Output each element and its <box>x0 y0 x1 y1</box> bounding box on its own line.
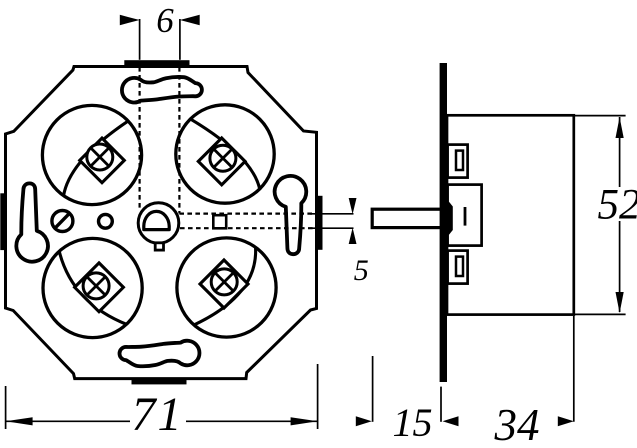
claw unit bottom-left: circle <box>43 238 142 337</box>
claw unit bottom-right: clamp diamond <box>200 260 248 308</box>
claw unit bottom-right: circle <box>177 238 276 337</box>
side view: top terminal lug <box>448 145 468 178</box>
bottom mounting slot (wrench-shaped, rotated copy) <box>120 341 200 367</box>
centre bearing circle <box>138 203 179 244</box>
claw unit top-right: cam arc <box>190 119 260 190</box>
dimension 6: left arrow <box>120 15 140 25</box>
side view: middle lug slot <box>464 207 467 226</box>
dimension 71: left arrow <box>6 417 33 425</box>
claw unit bottom-left: cam arc <box>59 251 127 325</box>
claw unit top-left: screw head (circle with X) <box>87 144 113 170</box>
dimension 5: lower arrow (pointing up) <box>349 228 357 244</box>
dimension 52: bottom extension line <box>575 313 626 315</box>
dimension 5: lower line <box>310 227 354 229</box>
dimension 6: right extension line <box>179 19 181 60</box>
svg-text:5: 5 <box>354 254 369 287</box>
dimension 52: top arrow <box>616 117 624 138</box>
D-shaped shaft seat <box>144 211 169 229</box>
side view: switch body rectangle <box>447 115 574 314</box>
side view: black hub block <box>441 202 453 235</box>
dimension 15: left arrow <box>356 416 372 426</box>
svg-text:34: 34 <box>494 400 540 448</box>
right keyhole slot (rotated copy) <box>275 176 307 254</box>
left edge tick bar <box>0 193 4 250</box>
claw unit top-left: clamp diamond <box>80 138 125 183</box>
dimension 52: top extension line <box>575 115 626 117</box>
svg-text:15: 15 <box>393 400 433 445</box>
front view: octagonal mounting plate outline <box>6 67 317 379</box>
dimension 6: left extension line <box>139 19 141 60</box>
svg-text:52: 52 <box>598 182 637 229</box>
dimension 71: dimension line <box>6 420 318 422</box>
side view: bottom terminal lug <box>448 251 468 284</box>
dimension 15: left extension line (shaft end) <box>372 356 374 422</box>
svg-text:71: 71 <box>132 388 184 441</box>
dimension 52: dimension line <box>619 117 621 312</box>
right edge tick bar <box>318 196 323 250</box>
claw unit bottom-right: cam arc <box>194 247 256 325</box>
slotted screw left of centre <box>52 211 73 232</box>
claw unit top-right: clamp diamond <box>198 138 245 185</box>
claw unit top-right: circle <box>176 105 274 203</box>
dimension 52: bottom arrow <box>616 292 624 313</box>
dimension 71: right extension line <box>317 364 319 429</box>
bottom edge tick bar <box>132 380 187 385</box>
dashed centre line vertical right <box>178 67 180 214</box>
claw unit bottom-left: clamp diamond <box>75 263 124 312</box>
claw unit bottom-left: screw head (circle with X) <box>83 273 109 299</box>
dimension 5: upper arrow (pointing down) <box>349 198 357 214</box>
dimension 34: right extension line (body) <box>573 316 575 422</box>
dimension 71: right arrow <box>291 417 318 425</box>
claw unit top-left: circle <box>42 105 141 204</box>
top edge tick bar <box>124 60 189 65</box>
small square below bearing <box>155 243 163 250</box>
side view: middle terminal lug <box>448 185 482 246</box>
dimension 5: upper line <box>310 213 354 215</box>
dimension 15: right arrow <box>443 416 459 426</box>
square shaft hole (5mm) <box>213 215 226 228</box>
dimension 15: right extension line (plate) <box>440 387 442 422</box>
side view: shaft <box>372 209 444 227</box>
dashed line horizontal upper <box>179 213 313 215</box>
dimension 34: right arrow <box>558 416 574 426</box>
dashed line horizontal lower <box>180 227 313 229</box>
side view: mounting plate edge-on (filled) <box>440 63 447 382</box>
dashed centre line vertical left <box>139 67 141 211</box>
left keyhole slot <box>16 183 48 261</box>
svg-text:6: 6 <box>156 1 174 40</box>
dimension 71: left extension line <box>5 386 7 429</box>
small hole circle <box>99 214 113 228</box>
claw unit top-right: screw head (circle with X) <box>210 145 236 171</box>
claw unit top-left: cam arc <box>64 121 129 196</box>
claw unit bottom-right: screw head (circle with X) <box>211 269 237 295</box>
dimension 6: right arrow <box>180 15 200 25</box>
top mounting slot (wrench-shaped) <box>122 77 202 103</box>
